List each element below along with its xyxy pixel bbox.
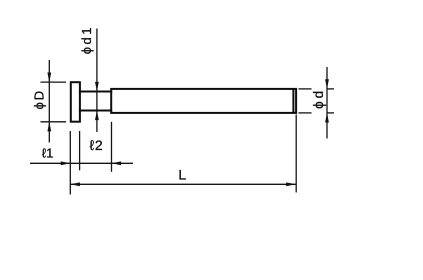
phid1 dimension line [96, 29, 98, 133]
phiD top extension line [41, 81, 67, 83]
pin head (flange) [71, 82, 80, 122]
svg-text:ℓ1: ℓ1 [42, 146, 53, 161]
part body: flanged pin outline [71, 82, 296, 122]
svg-text:ϕD: ϕD [31, 89, 46, 110]
l2 right arrow (points left at neck-end ext) [112, 161, 122, 165]
phid dimension line [326, 67, 328, 139]
l1 l2 dimension line [30, 162, 133, 164]
extension line neck end [111, 122, 113, 172]
L right extension line [295, 115, 297, 193]
L dimension line [70, 183, 295, 185]
phiD dimension line [48, 60, 50, 143]
neck (groove) bottom edge [80, 110, 111, 112]
svg-text:ϕd: ϕd [311, 88, 326, 109]
phiD bottom extension line [41, 121, 67, 123]
extension line head right edge [79, 131, 81, 170]
L left arrow [70, 182, 80, 186]
phid bottom extension stubs [299, 112, 312, 114]
phid1 bottom arrow (up at neck bottom) [95, 111, 99, 121]
dimension thin lines [30, 29, 334, 195]
phid bottom arrow (up at shaft bottom) [325, 113, 329, 123]
phid top arrow (down at shaft top) [325, 79, 329, 89]
l1 left arrow (points right at head-left ext) [61, 161, 71, 165]
shaft end chamfer line [292, 89, 294, 112]
L right arrow [286, 182, 296, 186]
svg-text:ϕd1: ϕd1 [79, 25, 94, 54]
phiD top arrow (down at head top) [47, 73, 51, 83]
phid top extension stubs [299, 88, 312, 90]
svg-text:L: L [178, 166, 186, 182]
extension line head left edge [69, 131, 71, 195]
svg-text:ℓ2: ℓ2 [90, 137, 104, 153]
shaft body [111, 89, 296, 113]
arrowheads [47, 73, 329, 187]
phiD bottom arrow (up at head bottom) [47, 122, 51, 132]
neck (groove) top edge [80, 91, 111, 93]
phid1 top arrow (down at neck top) [95, 82, 99, 92]
